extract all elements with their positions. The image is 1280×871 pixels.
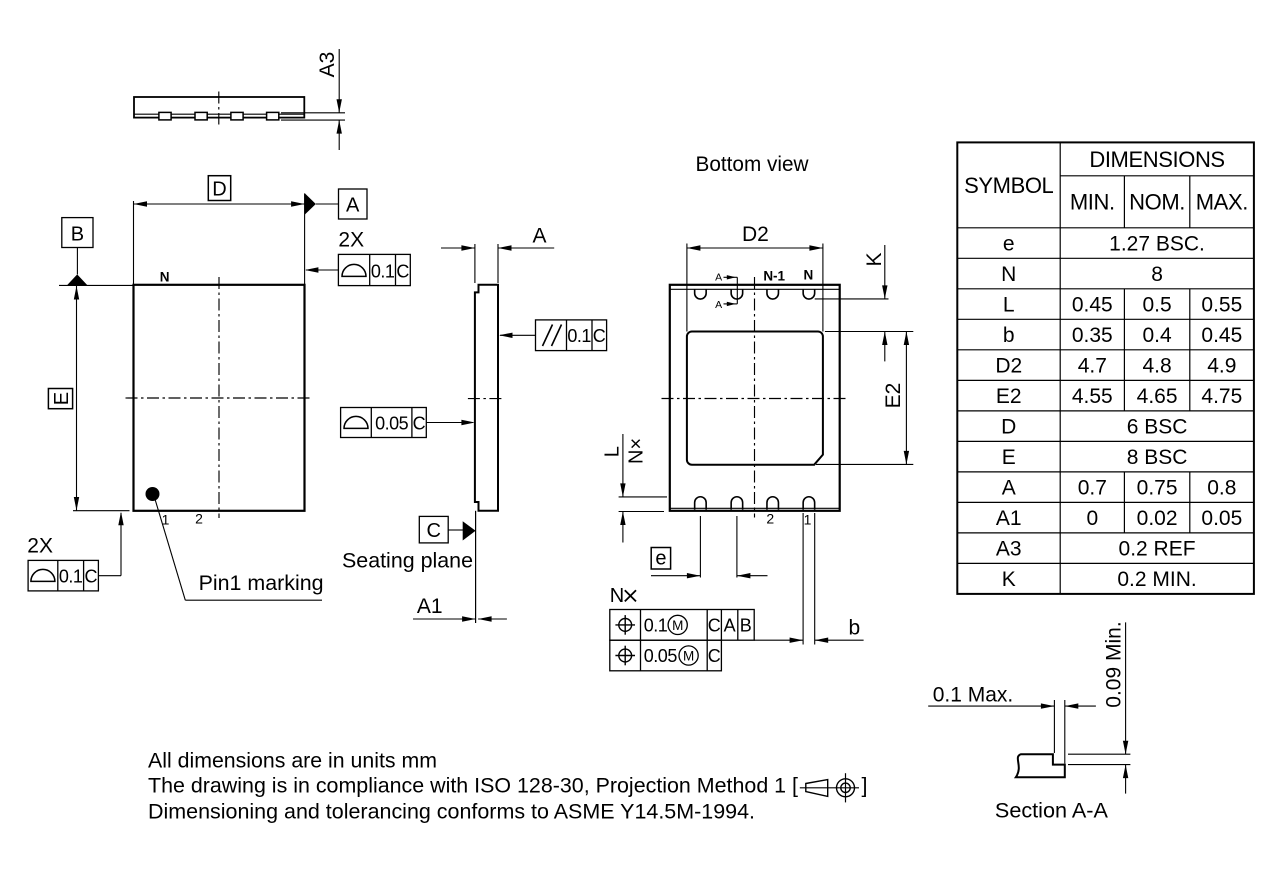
bottom view: bottom row terminals	[695, 497, 707, 510]
dimension E2: dimension line and arrows	[905, 332, 907, 465]
svg-text:Dimensioning and tolerancing c: Dimensioning and tolerancing conforms to…	[148, 800, 755, 824]
svg-text:0.2 MIN.: 0.2 MIN.	[1117, 568, 1196, 591]
dimension e: boxed label e	[651, 548, 670, 570]
svg-text:A1: A1	[996, 507, 1022, 530]
dimension D: extension lines	[133, 201, 135, 284]
dimension b: extension lines from pin 1 edges	[802, 513, 804, 645]
svg-text:0.02: 0.02	[1137, 507, 1178, 530]
dimension E: boxed label E (rotated)	[48, 389, 72, 409]
svg-text:C: C	[85, 567, 98, 587]
svg-text:N: N	[610, 585, 624, 607]
svg-text:0.05: 0.05	[1201, 507, 1242, 530]
top view: vertical centerline	[218, 277, 220, 518]
svg-text:0.45: 0.45	[1072, 294, 1113, 317]
dimension E: bottom extension line	[73, 510, 130, 512]
svg-text:MIN.: MIN.	[1070, 190, 1115, 215]
svg-text:M: M	[672, 618, 683, 633]
svg-text:M: M	[683, 648, 694, 663]
svg-text:A: A	[715, 272, 722, 284]
svg-text:b: b	[848, 617, 860, 640]
svg-text:DIMENSIONS: DIMENSIONS	[1089, 147, 1224, 172]
svg-text:2X: 2X	[338, 229, 364, 252]
svg-text:0.1: 0.1	[371, 261, 395, 281]
svg-text:4.65: 4.65	[1137, 385, 1178, 408]
dimension E2: extension line at pad bottom	[816, 463, 913, 465]
svg-text:C: C	[708, 616, 721, 636]
dimension 0.1 Max: extension lines	[1053, 700, 1055, 753]
svg-text:4.75: 4.75	[1201, 385, 1242, 408]
parallelism leader arrow	[500, 334, 536, 336]
dimension K: extension line at terminal bottom	[815, 298, 889, 300]
svg-text:0.2 REF: 0.2 REF	[1119, 538, 1196, 561]
front profile view: package body	[134, 97, 304, 118]
dimension A3	[338, 49, 340, 113]
dimension D2: extension lines	[686, 244, 688, 332]
svg-text:D2: D2	[995, 355, 1022, 378]
top view: pin1 marking dot	[146, 487, 160, 501]
svg-text:6 BSC: 6 BSC	[1127, 416, 1188, 439]
2X profile callout leader (bottom left)	[98, 575, 121, 577]
dimension A1 dimension line and arrows	[413, 618, 476, 620]
front profile: pads	[159, 112, 171, 120]
dimensions table: column lines	[1059, 142, 1061, 593]
svg-text:E2: E2	[996, 385, 1022, 408]
bottom view: package body	[670, 285, 840, 511]
svg-text:0.05: 0.05	[644, 646, 678, 666]
section A-A: lead outline with break line	[1016, 754, 1065, 777]
svg-text:A3: A3	[996, 538, 1022, 561]
parallelism feature control frame	[536, 320, 607, 351]
dimension D2: dimension line	[687, 247, 823, 249]
svg-text:SYMBOL: SYMBOL	[964, 173, 1053, 198]
svg-text:K: K	[863, 252, 886, 266]
svg-text:NOM.: NOM.	[1129, 190, 1185, 215]
svg-text:]: ]	[862, 774, 868, 798]
svg-text:L: L	[1003, 294, 1015, 317]
dimension L: dimension lines and arrows	[622, 434, 624, 497]
dimension A: extension lines	[474, 244, 476, 283]
terminal position feature control frame row 1	[610, 610, 754, 641]
svg-text:4.8: 4.8	[1142, 355, 1171, 378]
front profile: vertical centerline	[218, 92, 220, 125]
dimension 0.09 Min: extension lines	[1068, 753, 1130, 755]
dimension E: dimension line	[76, 286, 78, 511]
svg-text:0.05: 0.05	[375, 413, 409, 433]
dimensions table: header lines	[1060, 175, 1254, 177]
svg-text:0.1: 0.1	[644, 616, 668, 636]
svg-text:Section A-A: Section A-A	[995, 799, 1109, 823]
svg-text:4.55: 4.55	[1072, 385, 1113, 408]
projection method symbol: circles	[837, 779, 855, 797]
svg-text:N: N	[160, 269, 170, 284]
svg-text:C: C	[413, 413, 426, 433]
bottom view: horizontal centerline	[662, 398, 847, 400]
side view: horizontal centerline	[468, 398, 504, 400]
svg-text:1.27 BSC.: 1.27 BSC.	[1109, 233, 1205, 256]
dimension e: extension lines from terminal centers	[699, 516, 701, 578]
svg-text:b: b	[1003, 324, 1015, 347]
dimension 0.09 Min: dimension lines and arrows	[1125, 622, 1127, 754]
svg-text:A: A	[715, 299, 722, 311]
svg-text:0.8: 0.8	[1207, 477, 1236, 500]
2X profile callout leader arrow (top right)	[306, 269, 338, 271]
svg-text:2: 2	[766, 511, 774, 527]
parallelism symbol //	[543, 325, 553, 347]
svg-text:2X: 2X	[27, 534, 53, 557]
projection method symbol: cone frustum	[806, 780, 828, 797]
svg-text:C: C	[426, 520, 440, 542]
dimension K and E2: extension line at pad top	[825, 331, 913, 333]
bottom view: vertical centerline	[754, 277, 756, 518]
svg-text:C: C	[593, 326, 606, 346]
2X profile callout frame (top right)	[338, 254, 410, 285]
dimension L: extension lines	[619, 496, 667, 498]
svg-text:A: A	[724, 616, 736, 636]
svg-text:N: N	[1001, 263, 1016, 286]
datum B flag triangle and stem	[76, 248, 78, 275]
datum C box	[419, 516, 448, 543]
svg-text:4.7: 4.7	[1078, 355, 1107, 378]
dimension A3: upper extension line	[281, 112, 345, 114]
svg-text:0.7: 0.7	[1078, 477, 1107, 500]
top view: horizontal centerline	[126, 397, 312, 399]
pin1 marking leader line	[155, 498, 186, 601]
svg-text:MAX.: MAX.	[1196, 190, 1248, 215]
svg-text:e: e	[655, 548, 666, 570]
dimension 0.1 Max: dimension line and arrows	[928, 705, 1054, 707]
svg-text:N-1: N-1	[763, 269, 785, 284]
svg-text:All dimensions are in units mm: All dimensions are in units mm	[148, 749, 437, 773]
svg-text:C: C	[396, 261, 409, 281]
svg-text:2: 2	[195, 511, 203, 527]
dimension D: boxed label D	[208, 176, 230, 201]
svg-text:E: E	[51, 392, 73, 405]
seating plane line	[475, 511, 477, 623]
side view: package outline	[475, 285, 498, 511]
bottom view: top row terminals	[695, 289, 707, 299]
top view: package body	[134, 285, 305, 511]
dimension A: dimension line and arrows	[441, 247, 475, 249]
svg-text:8: 8	[1151, 263, 1163, 286]
svg-text:L: L	[602, 446, 624, 457]
profile 0.05 feature control frame	[341, 408, 427, 438]
svg-text:Seating plane: Seating plane	[342, 550, 473, 573]
svg-text:8 BSC: 8 BSC	[1127, 446, 1188, 469]
svg-text:A: A	[1002, 477, 1016, 500]
svg-text:E2: E2	[882, 383, 905, 409]
bottom view: bottom edge inner line	[670, 507, 840, 509]
svg-text:A1: A1	[417, 595, 443, 618]
dimension K: dimension lines and arrows	[884, 245, 886, 299]
dimensions table: outer border	[957, 142, 1254, 593]
svg-text:e: e	[1003, 233, 1015, 256]
datum C flag triangle	[448, 529, 463, 531]
svg-text:A3: A3	[316, 52, 339, 78]
datum B box	[62, 218, 93, 248]
profile 0.05 leader arrow	[426, 422, 473, 424]
svg-text:D: D	[1001, 416, 1016, 439]
svg-text:N×: N×	[626, 438, 648, 464]
svg-text:Pin1 marking: Pin1 marking	[199, 572, 324, 595]
svg-text:0.1 Max.: 0.1 Max.	[933, 684, 1014, 707]
svg-text:0.4: 0.4	[1142, 324, 1172, 347]
svg-text:E: E	[1002, 446, 1016, 469]
svg-text:B: B	[71, 224, 84, 246]
svg-text:0.09 Min.: 0.09 Min.	[1102, 621, 1125, 707]
svg-text:C: C	[708, 646, 721, 666]
svg-text:Bottom view: Bottom view	[696, 152, 809, 176]
bottom view: top edge inner line	[670, 288, 840, 290]
svg-text:0.1: 0.1	[567, 326, 591, 346]
svg-text:4.9: 4.9	[1207, 355, 1236, 378]
projection method symbol: centerline vertical	[845, 773, 847, 802]
svg-text:0.45: 0.45	[1201, 324, 1242, 347]
front profile: lead frame line	[134, 113, 304, 115]
svg-text:B: B	[740, 616, 752, 636]
dimension E: top extension line	[59, 284, 134, 286]
dimension e: dimension line and arrows	[651, 575, 700, 577]
svg-text:A: A	[346, 195, 360, 217]
svg-text:N: N	[804, 268, 814, 283]
svg-text:0.55: 0.55	[1201, 294, 1242, 317]
svg-text:0.1: 0.1	[59, 567, 83, 587]
bottom view: exposed pad outline	[687, 332, 823, 465]
dimension b: dimension line and arrows	[754, 639, 803, 641]
svg-text:0: 0	[1086, 507, 1098, 530]
dimension A3: lower extension line	[281, 119, 345, 121]
svg-text:0.35: 0.35	[1072, 324, 1113, 347]
svg-text:D2: D2	[742, 223, 769, 246]
svg-text:D: D	[212, 179, 226, 201]
svg-text:0.5: 0.5	[1142, 294, 1171, 317]
2X profile callout frame (bottom left)	[28, 560, 98, 591]
svg-text:0.75: 0.75	[1137, 477, 1178, 500]
svg-text:1: 1	[804, 512, 812, 528]
dimension D: dimension line	[134, 203, 305, 205]
svg-text:The drawing is in compliance w: The drawing is in compliance with ISO 12…	[148, 774, 798, 798]
dimensions table: row lines	[957, 257, 1254, 259]
terminal position feature control frame row 2	[610, 640, 722, 671]
projection method symbol: centerline horizontal	[800, 787, 859, 789]
svg-text:A: A	[532, 225, 546, 248]
datum A flag triangle	[305, 193, 316, 214]
svg-text:K: K	[1002, 568, 1016, 591]
datum A box	[339, 189, 368, 219]
